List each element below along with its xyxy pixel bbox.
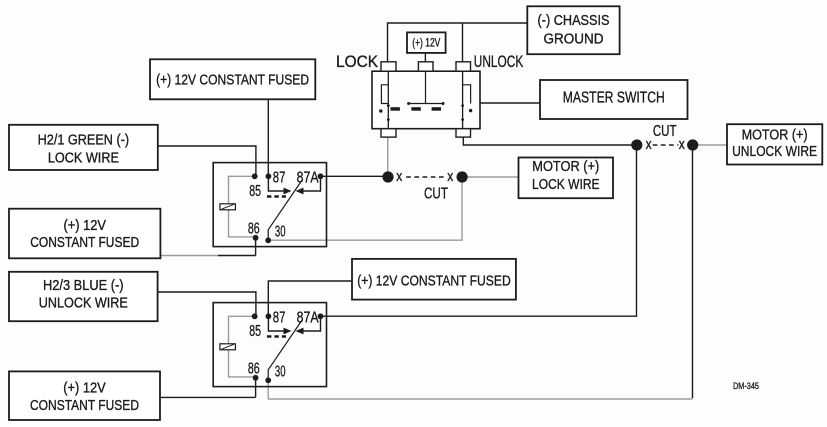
svg-text:(+) 12V: (+) 12V [412, 36, 440, 50]
relay U2 body [213, 303, 326, 387]
wire: right cut junction down to relay 2 pin 87A [323, 148, 637, 316]
master switch rocker dashes [391, 107, 400, 111]
box: H2/3 blue unlock wire [9, 272, 158, 321]
box: H2/1 green lock wire [9, 125, 158, 170]
right cut point on unlock wire [631, 123, 698, 153]
svg-text:87: 87 [273, 309, 286, 326]
relay U2 switch arm 30 to 87A [268, 320, 302, 380]
svg-text:LOCK: LOCK [336, 52, 379, 71]
wire: left cut dot to MOTOR (+) LOCK WIRE box (gray) [467, 176, 519, 178]
svg-text:(+) 12V: (+) 12V [63, 380, 106, 396]
relay U1 coil wiring 85-86 (gray) [229, 176, 256, 237]
relay U2 pin 86 [253, 375, 259, 381]
svg-text:(+) 12V CONSTANT FUSED: (+) 12V CONSTANT FUSED [156, 72, 309, 88]
wire: (+)12V constant fused (top box) down to relay 1 pin 87 [267, 99, 269, 176]
master switch terminal: bottom right (unlock out) [456, 129, 471, 137]
relay U2 pin 87 contact stub with arrow [268, 316, 283, 331]
svg-text:86: 86 [248, 221, 260, 238]
svg-text:x: x [646, 136, 652, 153]
relay U2 pin 85 [252, 313, 258, 319]
wire: motor lock return, from left cut dot down then left to relay 1 pin 30 (gray) [268, 182, 462, 240]
master switch S1 [372, 62, 480, 137]
svg-text:CONSTANT FUSED: CONSTANT FUSED [30, 398, 139, 414]
box: (+) 12V supply to master switch [407, 32, 446, 53]
svg-text:x: x [396, 168, 402, 185]
cut dashed gap [406, 176, 446, 178]
node: lock wire cut, motor side [457, 171, 468, 182]
relay U1 pin 85 [252, 173, 258, 179]
wire: motor unlock feed from right cut dot to MOTOR (+) UNLOCK WIRE box (gray) [698, 144, 727, 146]
master switch terminal: bottom left (lock out) [381, 129, 396, 137]
relay U1 pin 87 [266, 173, 272, 179]
master switch unlock-side conductor [462, 71, 464, 129]
relay U1 coil [220, 204, 236, 210]
master switch terminal: top right (unlock) [456, 62, 471, 71]
box: (+) 12V constant fused (feeds relay 1 pin 87) [150, 59, 315, 99]
svg-text:87: 87 [273, 169, 286, 186]
wire: (+)12V feed into master switch center terminal [424, 53, 426, 62]
relay U2 coil [220, 344, 236, 350]
master switch unlock-side contact bracket [463, 85, 471, 104]
relay U2 coil wiring 85-86 (gray) [229, 316, 256, 377]
svg-text:UNLOCK WIRE: UNLOCK WIRE [39, 296, 128, 312]
svg-text:UNLOCK WIRE: UNLOCK WIRE [732, 144, 817, 160]
master switch terminal: top center (+12V) [418, 62, 433, 71]
svg-text:(-) CHASSIS: (-) CHASSIS [538, 13, 610, 29]
box: (+) 12V constant fused (feeds relay 2 pin 87) [352, 259, 516, 300]
svg-text:85: 85 [249, 183, 261, 200]
svg-text:85: 85 [249, 323, 261, 340]
master switch lock-side conductor [387, 71, 389, 129]
svg-text:CUT: CUT [653, 123, 677, 140]
box: motor (+) lock wire [519, 158, 614, 199]
wire: motor unlock return, down from right cut dot then left to relay 2 pin 30 (gray) [692, 148, 694, 398]
node: lock wire cut, switch side [382, 171, 393, 182]
svg-text:CUT: CUT [424, 185, 448, 202]
svg-text:30: 30 [275, 364, 286, 381]
wire: (+)12V constant fused (mid-left box) to relay 1 pin 86 [160, 255, 219, 257]
svg-text:MOTOR (+): MOTOR (+) [532, 159, 599, 175]
relay U2 pin 87A [318, 313, 324, 319]
svg-text:CONSTANT FUSED: CONSTANT FUSED [30, 235, 139, 251]
wire: master switch UNLOCK output to right cut junction [463, 137, 632, 145]
svg-text:LOCK WIRE: LOCK WIRE [48, 150, 119, 166]
wire: chassis ground bus (top, from LOCK terminal and UNLOCK terminal to chassis ground box) [388, 23, 528, 62]
svg-text:DM-345: DM-345 [733, 381, 759, 392]
cut dashed gap [653, 144, 679, 146]
svg-text:H2/1 GREEN (-): H2/1 GREEN (-) [38, 132, 130, 148]
svg-text:x: x [679, 136, 685, 153]
box: master switch label [540, 80, 688, 119]
box: (-) chassis ground [527, 6, 619, 54]
relay U2 pin 87A contact stub with arrow [304, 316, 321, 331]
svg-text:(+) 12V CONSTANT FUSED: (+) 12V CONSTANT FUSED [357, 274, 511, 290]
relay U1 pin 87A [318, 173, 324, 179]
svg-text:UNLOCK: UNLOCK [474, 52, 524, 71]
svg-text:30: 30 [275, 224, 286, 241]
box: (+) 12V constant fused (feeds relay 1 pin 86) [9, 209, 160, 259]
svg-text:MOTOR (+): MOTOR (+) [742, 128, 808, 144]
wire: H2/1 green lock wire to relay 1 pin 85 [158, 146, 256, 176]
wire: master switch LOCK output down to left cut junction (gray) [387, 137, 389, 172]
node: unlock wire cut, switch side [631, 139, 642, 150]
relay U1 pin 87 contact stub with arrow [268, 176, 283, 191]
relay U1 pin 87A contact stub with arrow [304, 176, 321, 191]
svg-text:(+) 12V: (+) 12V [63, 218, 106, 234]
wire: relay 1 pin 87A to left cut junction [321, 175, 383, 177]
box: motor (+) unlock wire [727, 124, 822, 164]
relay U1 (lock relay) [213, 163, 326, 247]
relay U2 (unlock relay) [213, 303, 326, 387]
svg-text:GROUND: GROUND [544, 32, 604, 48]
master switch terminal: top left (lock) [381, 62, 396, 71]
master switch lock-side contact bracket [381, 85, 388, 104]
relay U2 pin 30 [265, 377, 271, 383]
svg-text:H2/3 BLUE (-): H2/3 BLUE (-) [43, 278, 124, 294]
relay U1 pin 30 [265, 237, 271, 243]
wire: H2/3 blue unlock wire to relay 2 pin 85 [158, 292, 256, 316]
relay U1 energized-position dashes [267, 195, 286, 198]
node: unlock wire cut, motor side [687, 139, 698, 150]
relay U2 energized-position dashes [267, 335, 286, 338]
svg-text:x: x [447, 168, 453, 185]
relay U1 switch arm 30 to 87A [268, 180, 302, 240]
relay U1 body [213, 163, 326, 247]
relay U2 pin 87 [266, 313, 272, 319]
relay U1 pin 86 [253, 235, 259, 241]
svg-text:MASTER SWITCH: MASTER SWITCH [563, 89, 665, 106]
svg-text:86: 86 [248, 361, 260, 378]
wire: (+)12V constant fused (mid-right box) to relay 2 pin 87 [268, 281, 352, 316]
master switch common feed bar [409, 71, 443, 103]
left cut point on lock wire [382, 168, 467, 203]
master switch body [372, 71, 480, 129]
wire: (+)12V constant fused (bottom box) to relay 2 pin 86 [160, 378, 256, 397]
wire: master switch to MASTER SWITCH label box [480, 102, 540, 104]
box: (+) 12V constant fused (feeds relay 2 pin 86) [9, 371, 160, 420]
svg-text:LOCK WIRE: LOCK WIRE [532, 177, 600, 193]
